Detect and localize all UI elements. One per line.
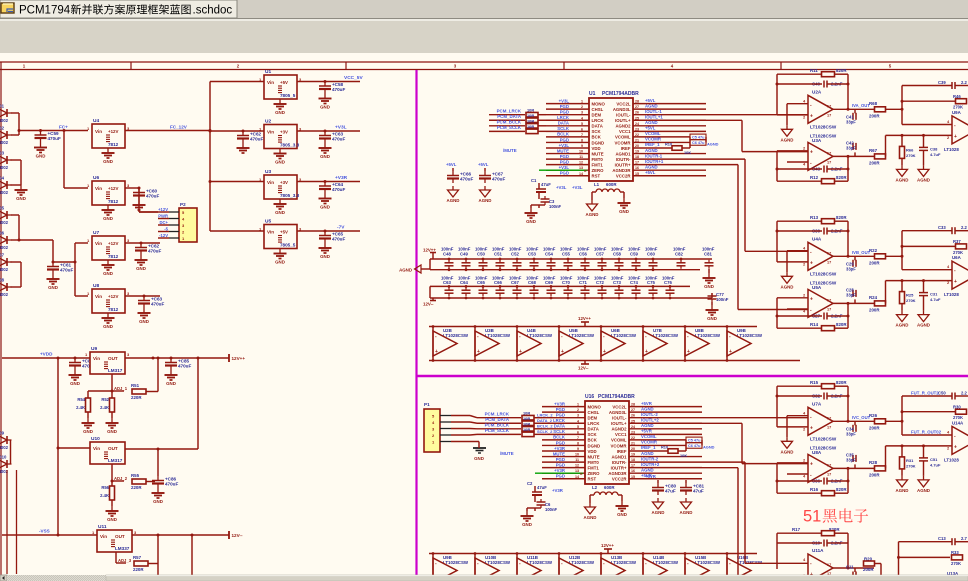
svg-text:AGND: AGND — [645, 148, 658, 153]
wire block4 stage2 — [898, 542, 900, 581]
svg-text:+V3R: +V3R — [552, 488, 564, 493]
svg-text:IOUTR-: IOUTR- — [616, 157, 631, 162]
diode D7 4002 — [0, 258, 7, 266]
svg-text:C56: C56 — [579, 252, 587, 257]
U1 IOUTL+ output wire — [633, 119, 706, 121]
svg-text:R10: R10 — [661, 445, 668, 450]
svg-text:470uF: 470uF — [165, 482, 178, 487]
svg-text:8: 8 — [581, 138, 583, 142]
resistor R33b 270K block4 — [899, 556, 951, 558]
svg-text:IREF_1: IREF_1 — [641, 445, 656, 450]
svg-text:270K: 270K — [906, 298, 916, 303]
svg-text:VCOML: VCOML — [615, 135, 631, 140]
svg-text:220R: 220R — [131, 485, 142, 490]
svg-text:U4A: U4A — [812, 236, 822, 241]
svg-text:R55: R55 — [131, 473, 140, 478]
ground below U2 — [279, 149, 281, 154]
svg-text:LM317: LM317 — [108, 368, 123, 373]
svg-text:U4: U4 — [93, 118, 99, 124]
svg-text:C57: C57 — [596, 252, 604, 257]
svg-text:600R: 600R — [606, 182, 617, 187]
op-amp U5A LT1028CSW — [808, 289, 833, 317]
svg-text:12: 12 — [575, 464, 579, 468]
svg-text:+5VR: +5VR — [641, 429, 653, 434]
svg-text:MUTE: MUTE — [553, 451, 565, 456]
svg-text:2: 2 — [581, 105, 583, 109]
svg-text:AGND1: AGND1 — [611, 454, 627, 459]
svg-text:4002: 4002 — [0, 165, 9, 170]
wire diode bus D1 D2 — [11, 112, 19, 114]
svg-text:R10: R10 — [665, 142, 672, 147]
svg-text:+: + — [477, 349, 480, 355]
U1 pin row 13 ZERO/AGND3R — [546, 169, 589, 171]
svg-text:IOUTR+2: IOUTR+2 — [641, 462, 660, 467]
svg-text:7812: 7812 — [108, 254, 119, 259]
svg-text:IOUTL-: IOUTL- — [612, 416, 627, 421]
svg-text:U9: U9 — [91, 346, 97, 352]
svg-text:GND: GND — [474, 456, 484, 461]
svg-text:AGND1: AGND1 — [615, 151, 631, 156]
svg-text:C6 47u: C6 47u — [692, 141, 705, 145]
svg-text:GND: GND — [275, 110, 285, 115]
svg-text:200R: 200R — [869, 472, 880, 477]
wire lower opamp output rise — [885, 446, 887, 469]
wire U9 ADJ network — [111, 374, 113, 391]
svg-text:Vin: Vin — [93, 356, 100, 361]
svg-text:L1: L1 — [594, 182, 600, 187]
svg-text:GND: GND — [166, 381, 176, 386]
svg-text:IOUTR-2: IOUTR-2 — [641, 456, 659, 461]
svg-text:+5V: +5V — [280, 80, 288, 85]
svg-text:PGD: PGD — [560, 159, 569, 164]
svg-text:SCK: SCK — [588, 432, 598, 437]
svg-text:200R: 200R — [869, 160, 880, 165]
ground below R54 — [87, 412, 89, 418]
svg-text:C55: C55 — [562, 252, 570, 257]
U16 pin row 4 LRCK/IOUTL+ — [542, 422, 585, 424]
svg-text:C59: C59 — [630, 252, 638, 257]
svg-text:GND: GND — [139, 319, 149, 324]
svg-text:PGD: PGD — [560, 171, 569, 176]
ground below C58 — [324, 94, 326, 99]
analog ground below R66 — [901, 165, 903, 169]
svg-text:470uF: 470uF — [250, 137, 263, 142]
svg-text:LRCK: LRCK — [588, 421, 601, 426]
svg-text:270K: 270K — [951, 561, 961, 566]
svg-text:470uF: 470uF — [332, 137, 345, 142]
svg-text:600R: 600R — [604, 485, 615, 490]
svg-text:FMT1: FMT1 — [588, 465, 600, 470]
svg-text:C63: C63 — [443, 280, 451, 285]
svg-text:U6: U6 — [93, 175, 99, 181]
wire U14A summing node — [886, 420, 903, 422]
svg-text:12V--: 12V-- — [578, 366, 589, 371]
svg-text:2.2: 2.2 — [961, 80, 967, 85]
svg-text:LM337: LM337 — [115, 546, 130, 551]
svg-text:+: + — [954, 134, 957, 140]
svg-text:Vin: Vin — [95, 186, 102, 191]
svg-text:10R: 10R — [523, 427, 530, 432]
svg-text:IOUTR-: IOUTR- — [612, 460, 627, 465]
svg-text:270K: 270K — [906, 463, 916, 468]
svg-text:R15: R15 — [810, 380, 819, 385]
op-amp U14A third stage noninverting input wire — [886, 445, 953, 447]
U1 pin row 4 LRCK/IOUTL+ — [546, 119, 589, 121]
svg-text:PGD: PGD — [556, 474, 565, 479]
svg-text:BCK: BCK — [588, 438, 598, 443]
svg-text:GND: GND — [103, 271, 113, 276]
svg-text:4.7uF: 4.7uF — [930, 462, 941, 467]
svg-text:9: 9 — [581, 144, 583, 148]
svg-text:BCLK: BCLK — [557, 132, 570, 137]
U16 pin row 11 FMT0/IOUTR- — [542, 461, 585, 463]
wire U2 output +V3L — [297, 130, 360, 132]
svg-text:470uF: 470uF — [60, 268, 73, 273]
svg-text:17: 17 — [827, 113, 831, 117]
svg-text:R56: R56 — [101, 485, 109, 490]
wire IC U1 IOUTL- to U2A — [706, 114, 808, 116]
svg-text:R37: R37 — [953, 239, 961, 244]
svg-text:C50: C50 — [938, 391, 946, 396]
op-amp U14A third stage inverting input wire — [902, 434, 952, 436]
U4A inverting input wire — [787, 250, 808, 252]
svg-text:+V3R: +V3R — [554, 468, 566, 473]
U11A output wire — [833, 567, 874, 569]
magenta horizontal divider — [417, 375, 968, 378]
wire -VSS input — [2, 534, 97, 536]
svg-text:R28: R28 — [869, 460, 878, 465]
svg-text:U6A: U6A — [952, 255, 962, 260]
svg-text:AGND: AGND — [781, 284, 794, 289]
svg-text:VCC1: VCC1 — [615, 432, 627, 437]
ground below C84 — [74, 370, 76, 375]
svg-text:4002: 4002 — [0, 190, 9, 195]
svg-text:4.7uF: 4.7uF — [930, 152, 941, 157]
svg-text:R31: R31 — [906, 458, 914, 463]
power port 12V-- — [228, 531, 230, 539]
svg-text:10: 10 — [579, 150, 583, 154]
svg-text:DATA: DATA — [588, 427, 599, 432]
svg-text:C53: C53 — [528, 252, 536, 257]
svg-text:GND: GND — [107, 429, 117, 434]
svg-text:+: + — [954, 444, 957, 450]
svg-text:IOUTL-: IOUTL- — [616, 113, 631, 118]
svg-text:ADJ_2: ADJ_2 — [114, 476, 128, 481]
svg-text:C31: C31 — [930, 292, 938, 297]
svg-text:C65: C65 — [477, 280, 485, 285]
svg-text:C68: C68 — [528, 280, 536, 285]
op-amp U6A third stage inverting input wire — [902, 269, 952, 271]
capacitor C81b 47uF — [685, 480, 687, 483]
svg-text:PGD: PGD — [556, 440, 565, 445]
svg-text:220R: 220R — [131, 395, 142, 400]
svg-text:8: 8 — [577, 441, 579, 445]
svg-text:5: 5 — [577, 425, 579, 429]
capacitor C77 100nF right — [711, 293, 713, 298]
svg-text:4002: 4002 — [0, 220, 9, 225]
svg-text:U9A: U9A — [952, 110, 962, 115]
svg-text:270K: 270K — [906, 153, 916, 158]
svg-text:+: + — [810, 149, 813, 155]
svg-text:R54: R54 — [77, 397, 85, 402]
svg-text:47uF: 47uF — [537, 485, 547, 490]
svg-text:VCC2R: VCC2R — [612, 477, 627, 482]
ground below C65 — [324, 243, 326, 248]
svg-text:LRCK: LRCK — [592, 118, 605, 123]
svg-text:3: 3 — [581, 111, 583, 115]
svg-text:IVC_OUT: IVC_OUT — [852, 415, 871, 420]
svg-text:GND: GND — [320, 205, 330, 210]
wire VDD bus down — [57, 357, 60, 360]
ground below C63a — [143, 308, 145, 313]
svg-text:R51: R51 — [131, 383, 140, 388]
svg-text:R12: R12 — [810, 175, 819, 180]
ground below C61 — [52, 274, 54, 279]
svg-text:VCC2L: VCC2L — [612, 404, 626, 409]
diode D8 4002 — [0, 283, 7, 291]
svg-text:2.4K: 2.4K — [100, 493, 109, 498]
wire U10 output rise to 12V rail — [197, 358, 199, 449]
svg-text:R33: R33 — [951, 550, 959, 555]
svg-text:AGND: AGND — [896, 323, 909, 328]
svg-text:AGND: AGND — [641, 406, 654, 411]
U16 pin row 3 DEM/IOUTL- — [542, 417, 585, 419]
analog ground below R25 — [901, 311, 903, 315]
svg-text:LT1028CSW: LT1028CSW — [810, 124, 837, 129]
wire U5 output -7V — [297, 230, 360, 232]
wire P2 pin1 feed — [139, 211, 158, 213]
svg-text:200R: 200R — [863, 567, 874, 572]
svg-text:IOUTL+: IOUTL+ — [615, 118, 631, 123]
svg-text:+V3L: +V3L — [335, 125, 347, 131]
capacitor C3 100nF below U1 — [538, 192, 540, 199]
U16 VCOM decoupling capacitors 47u — [685, 440, 687, 451]
wire lower opamp output rise — [885, 135, 887, 156]
U5A noninverting input wire — [787, 308, 808, 310]
diode D3 4002 — [0, 156, 7, 164]
capacitor C58 470uF — [324, 82, 326, 87]
svg-text:+V3L: +V3L — [572, 185, 583, 190]
svg-text:MUTE: MUTE — [557, 148, 569, 153]
analog ground below C51 — [923, 476, 925, 480]
cap row2 top rail — [430, 285, 690, 287]
sheet left border line — [0, 62, 2, 575]
svg-text:MUTE: MUTE — [592, 151, 604, 156]
svg-text:GND: GND — [707, 316, 717, 321]
op-amp U3A LT1028CSW — [808, 142, 833, 170]
svg-text:PGD: PGD — [560, 137, 569, 142]
svg-text:DGND: DGND — [592, 140, 605, 145]
svg-text:U16: U16 — [585, 394, 594, 400]
svg-text:OUT: OUT — [108, 356, 118, 361]
svg-text:+5VL: +5VL — [645, 98, 656, 103]
svg-text:DGND: DGND — [588, 443, 601, 448]
svg-text:LT1028CSW: LT1028CSW — [653, 560, 679, 565]
svg-text:GND: GND — [320, 105, 330, 110]
ground below R52 — [111, 412, 113, 418]
svg-text:C48: C48 — [443, 252, 451, 257]
svg-text:1: 1 — [577, 403, 579, 407]
svg-text:C81: C81 — [704, 252, 712, 257]
wire R20 output down — [874, 563, 881, 565]
capacitor C42 33pF — [854, 152, 856, 156]
svg-text:PCM_LRCK: PCM_LRCK — [497, 109, 522, 114]
U16 IOUTL- output wire — [629, 417, 702, 419]
svg-text:VCOML: VCOML — [645, 131, 661, 136]
ground below C62 — [140, 255, 142, 260]
svg-text:IOUTL-1: IOUTL-1 — [645, 109, 662, 114]
svg-text:LT1028CSW: LT1028CSW — [611, 560, 637, 565]
svg-text:LT1028CSW: LT1028CSW — [695, 560, 721, 565]
svg-text:C69: C69 — [545, 280, 553, 285]
analog ground below C80 — [657, 498, 659, 502]
svg-text:7: 7 — [577, 436, 579, 440]
svg-text:VCC2R: VCC2R — [616, 174, 631, 179]
svg-text:R16: R16 — [810, 487, 819, 492]
op-amp U9A third stage inverting input wire — [902, 124, 952, 126]
svg-text:C38: C38 — [930, 146, 938, 151]
svg-text:820R: 820R — [836, 380, 847, 385]
svg-text:+5VR: +5VR — [645, 474, 657, 479]
wire P1 pin1 to ground — [451, 441, 479, 443]
svg-text:PCM_DATA: PCM_DATA — [497, 114, 522, 119]
svg-text:200R: 200R — [869, 425, 880, 430]
diode D2 4002 — [0, 131, 7, 139]
U1 pin row 5 DATA/AGND2 — [546, 125, 589, 127]
svg-text:DATA: DATA — [554, 424, 565, 429]
U16 green highlighted wire ZERO — [535, 472, 583, 474]
svg-text:2: 2 — [577, 408, 579, 412]
svg-text:LT1028CSW: LT1028CSW — [443, 560, 469, 565]
svg-text:U2: U2 — [265, 119, 271, 125]
U16 pin row 8 DGND/VCOMR — [542, 444, 585, 446]
svg-text:820R: 820R — [836, 68, 847, 73]
analog ground below C31 — [923, 311, 925, 315]
svg-text:PGD: PGD — [560, 154, 569, 159]
ground below C64 — [324, 194, 326, 199]
svg-text:2.7: 2.7 — [961, 536, 967, 541]
op-amp U4A LT1028CSW — [808, 242, 833, 270]
capacitor C38 4.7uF to AGND — [923, 135, 925, 147]
svg-text:RST: RST — [592, 174, 601, 179]
svg-text:AGND: AGND — [447, 198, 460, 203]
capacitor C1 47uF below U1 — [538, 183, 540, 189]
U8A noninverting input wire — [787, 473, 808, 475]
tab document icon — [1, 3, 14, 13]
svg-text:100nF: 100nF — [545, 507, 558, 512]
svg-text:AGND: AGND — [641, 451, 654, 456]
U1 resistor R10 10K IREF — [672, 146, 682, 151]
svg-text:17: 17 — [827, 251, 831, 255]
node FC+ junction — [18, 129, 21, 132]
capacitor C61 470uF — [52, 261, 55, 264]
svg-text:GND: GND — [617, 512, 627, 517]
svg-text:+V3L: +V3L — [556, 185, 567, 190]
capacitor C2 47uF below U16 — [534, 486, 536, 492]
svg-text:51: 51 — [803, 508, 821, 526]
svg-text:+: + — [561, 349, 564, 355]
svg-text:470uF: 470uF — [148, 249, 161, 254]
svg-text:LT1028: LT1028 — [944, 147, 959, 152]
wire D3 D4 common — [11, 159, 22, 161]
svg-text:PCM1794: PCM1794 — [19, 5, 71, 17]
svg-text:PCM_BCLK: PCM_BCLK — [497, 120, 522, 125]
svg-text:PCM_SCLK: PCM_SCLK — [497, 125, 522, 130]
ground below U1 — [279, 99, 281, 104]
svg-text:470uF: 470uF — [460, 177, 473, 182]
svg-text:+: + — [810, 113, 813, 119]
wire U6 out up to P2 row — [138, 188, 140, 212]
svg-text:10R: 10R — [527, 113, 534, 118]
U16 pin row 2 CHSL/AGND3L — [542, 411, 585, 413]
svg-text:GND: GND — [48, 285, 58, 290]
U1 green highlighted wire ZERO — [539, 169, 587, 171]
U1 pin row 11 FMT0/IOUTR- — [546, 158, 589, 160]
svg-text:10K: 10K — [684, 150, 691, 155]
cap row top rail — [430, 258, 712, 260]
svg-text:D4: D4 — [0, 176, 5, 181]
svg-text:FC+: FC+ — [59, 125, 68, 130]
svg-text:C51: C51 — [494, 252, 502, 257]
wire bus to U3 input — [209, 180, 212, 183]
svg-text:C60: C60 — [647, 252, 655, 257]
horizontal scrollbar track — [0, 575, 968, 581]
diode D9 4002 — [0, 436, 7, 444]
cap row2 bottom rail — [430, 297, 712, 299]
svg-text:10K: 10K — [680, 453, 687, 458]
wire verticals below U11 rail — [157, 535, 159, 581]
tab bar background — [0, 0, 968, 19]
svg-text:AGND: AGND — [896, 488, 909, 493]
capacitor C33 2.2nF third stage feedback — [902, 230, 952, 232]
svg-text:C70: C70 — [562, 280, 570, 285]
svg-text:C66: C66 — [494, 280, 502, 285]
svg-text:AGND: AGND — [781, 137, 794, 142]
svg-text:AGND2: AGND2 — [615, 124, 631, 129]
svg-text:FMT1: FMT1 — [592, 162, 604, 167]
U1 IOUTL- output wire — [633, 114, 706, 116]
svg-text:+12V: +12V — [108, 186, 118, 191]
svg-text:GND: GND — [522, 522, 532, 527]
svg-text:Vin: Vin — [267, 80, 274, 85]
svg-text:D8: D8 — [0, 278, 5, 283]
svg-text:U1: U1 — [589, 91, 596, 97]
svg-text:C50: C50 — [477, 252, 485, 257]
svg-text:AGND: AGND — [896, 177, 909, 182]
capacitor C86 470uF — [157, 449, 159, 476]
svg-text:10: 10 — [575, 453, 579, 457]
U16 IOUTL+ output wire — [629, 422, 702, 424]
svg-text:ZERO: ZERO — [592, 168, 605, 173]
svg-text:L2: L2 — [592, 485, 598, 490]
svg-text:DATA: DATA — [558, 121, 569, 126]
wire IC U1 IOUTL+ to U3A — [706, 119, 742, 121]
svg-text:VCOMR: VCOMR — [615, 140, 632, 145]
svg-text:IREF: IREF — [617, 449, 627, 454]
U2A inverting input wire — [787, 103, 808, 105]
U1 pin row 3 DEM/IOUTL- — [546, 114, 589, 116]
svg-text:470uF: 470uF — [492, 177, 505, 182]
svg-text:MUTE: MUTE — [588, 454, 600, 459]
svg-text:6: 6 — [581, 127, 583, 131]
svg-text:AGND2: AGND2 — [611, 427, 627, 432]
svg-text:MONO: MONO — [588, 404, 602, 409]
svg-text:470uF: 470uF — [332, 237, 345, 242]
op-amp U9A third stage noninverting input wire — [886, 134, 953, 136]
svg-text:U5A: U5A — [812, 285, 822, 290]
svg-text:C39: C39 — [938, 80, 946, 85]
svg-text:IVA_OUT: IVA_OUT — [852, 103, 870, 108]
